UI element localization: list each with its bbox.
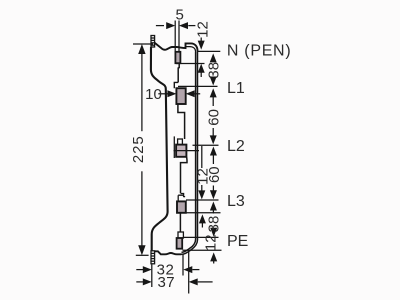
chain B: dim 38 lower arrow <box>210 77 217 86</box>
dim 5 right arrow <box>179 22 188 29</box>
N terminal bottom stub line <box>176 63 205 65</box>
L2 terminal block <box>176 145 186 157</box>
dim 32 left tail <box>136 269 143 271</box>
dim 225 arrow down <box>138 245 145 255</box>
svg-text:37: 37 <box>157 274 175 291</box>
dim 12 bottom arrow up <box>210 252 217 261</box>
L3 bottom line <box>177 212 221 214</box>
leader 10 arrow left (right side of terminal) <box>186 90 195 97</box>
chain B 60 line lower <box>212 128 214 139</box>
dim 225 line upper <box>141 53 143 131</box>
chain B: dim 38b lower arrow / 12 top arrow <box>210 228 217 237</box>
dim 32 left arrow <box>143 266 152 273</box>
dim 32 right tail <box>192 269 199 271</box>
L2 tab <box>178 139 183 145</box>
N level line <box>198 50 221 52</box>
L1 level line <box>178 85 218 87</box>
L3 foot / connector to PE <box>179 213 181 232</box>
hatch bar top (section break) <box>151 36 155 48</box>
dim 37 right arrow <box>189 278 198 285</box>
L1 foot <box>178 104 185 139</box>
L3 tab <box>178 194 185 202</box>
dim 5 left tail <box>156 25 164 27</box>
dim 12 bottom tail <box>213 259 215 264</box>
leader 10 arrow right <box>167 90 176 97</box>
leader 10 right tail <box>193 93 200 95</box>
L2 terminal mid line <box>174 150 200 152</box>
svg-text:L1: L1 <box>227 80 245 97</box>
PE level line <box>184 236 219 238</box>
dim 32 right arrow <box>183 266 192 273</box>
svg-text:5: 5 <box>176 6 184 23</box>
ext line left 32/37 <box>151 265 153 288</box>
dim 225 extension top <box>133 43 153 45</box>
dim 225 arrow up <box>138 44 145 54</box>
chain B 60 line upper <box>212 95 214 106</box>
chain B line 38 <box>212 59 214 61</box>
hatch bar bottom (section break) <box>151 251 155 264</box>
chain B: dim 60 upper arrow <box>210 88 217 97</box>
chain B: dim 38 upper arrow <box>210 53 217 62</box>
dim 5 extension lines <box>174 21 176 53</box>
chain B: dim 60b lower arrow <box>210 190 217 199</box>
chain B 38b line <box>212 209 214 214</box>
mounting plate inner line <box>182 52 196 253</box>
chain B: dim 60b upper arrow <box>210 147 217 156</box>
dim 12 top arrow down <box>198 41 205 50</box>
connector N to L1 <box>178 64 179 83</box>
svg-text:10: 10 <box>145 86 162 103</box>
L3 level line <box>186 199 219 201</box>
L1 terminal <box>176 88 185 104</box>
svg-text:225: 225 <box>130 135 147 163</box>
chain B 60b line upper <box>212 153 214 164</box>
chain B: dim 38b upper arrow <box>210 202 217 211</box>
bottom edge line extended <box>183 249 222 251</box>
dim 225 extension bottom <box>136 254 149 256</box>
dim 37 left arrow <box>143 278 152 285</box>
chain A tail below L3 <box>201 222 203 228</box>
chain A mid line (12 for L3 terminal) <box>201 146 203 168</box>
profile top wavy edge <box>155 43 198 51</box>
L1 tab <box>174 82 178 88</box>
svg-text:60: 60 <box>206 166 223 183</box>
svg-text:L3: L3 <box>227 193 245 210</box>
svg-text:N (PEN): N (PEN) <box>227 43 291 60</box>
profile bottom edge <box>155 251 182 254</box>
svg-text:38: 38 <box>206 62 223 79</box>
PE terminal <box>177 238 183 249</box>
svg-text:12: 12 <box>202 234 219 251</box>
dim 37 right tail <box>198 281 213 283</box>
leader 10 line <box>158 93 170 95</box>
L2 level line <box>193 144 219 146</box>
profile left outer edge <box>151 47 168 251</box>
ext line 37 right <box>188 251 190 294</box>
svg-text:60: 60 <box>206 109 223 126</box>
L2 tab wall <box>173 136 175 158</box>
PE tab <box>178 232 183 238</box>
L2 foot <box>181 157 188 194</box>
ext line 32 right <box>182 254 184 276</box>
dim 37 left tail <box>136 281 143 283</box>
chain A: dim 12 arrow down at L3 <box>198 190 205 199</box>
dim 12 top arrow tail <box>200 71 202 78</box>
svg-text:L2: L2 <box>227 138 245 155</box>
L3 terminal <box>177 201 186 212</box>
chain B 60b line lower <box>212 186 214 195</box>
chain A: dim 12 arrow up below L3 <box>199 214 206 223</box>
svg-text:12: 12 <box>195 21 212 38</box>
svg-text:PE: PE <box>227 233 248 250</box>
mounting plate outer line <box>182 51 198 255</box>
svg-text:38: 38 <box>206 216 223 233</box>
profile top inner edge <box>186 47 196 52</box>
dim 12 top arrow up (to stub) <box>198 64 205 73</box>
dim 12 top: line <box>200 38 202 43</box>
chain B: dim 60 lower arrow <box>210 135 217 144</box>
dim 5 right tail <box>188 25 195 27</box>
dim 5 left arrow <box>166 22 175 29</box>
N terminal T1 <box>175 52 180 63</box>
dim 225 line lower <box>141 171 143 246</box>
